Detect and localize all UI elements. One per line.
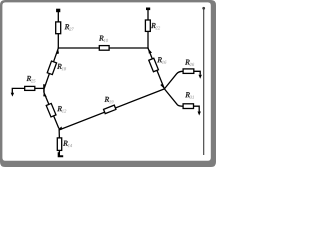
resistor R19 bbox=[104, 105, 116, 113]
label R19 bbox=[105, 97, 109, 102]
wire R14 bottom lead bbox=[58, 150, 60, 152]
wire X to R26 left with curve bbox=[164, 71, 183, 89]
arrowhead at N2 bbox=[43, 92, 47, 96]
resistor R26 bbox=[183, 69, 194, 74]
label R10 bbox=[99, 36, 103, 41]
wire R22 top lead bbox=[147, 9, 149, 21]
node N2 tick bbox=[43, 84, 45, 93]
wire rail right bbox=[203, 8, 205, 155]
label R16 bbox=[157, 57, 161, 62]
label R18 bbox=[57, 64, 61, 69]
resistor R31 bbox=[183, 104, 193, 109]
resistor R22 bbox=[145, 20, 150, 31]
arrowhead at X bbox=[160, 83, 164, 88]
resistor R14 bbox=[57, 138, 61, 151]
wire top horizontal J1 to R10 bbox=[58, 47, 100, 49]
arrowhead right-top bbox=[199, 75, 202, 79]
resistor R10 bbox=[99, 46, 109, 51]
resistor R18 bbox=[47, 61, 56, 74]
terminal top-left bbox=[56, 9, 60, 13]
wire R27 top lead bbox=[57, 11, 59, 22]
label R25 bbox=[27, 76, 31, 81]
wire R10 to J2 bbox=[109, 47, 149, 49]
wire long diagonal N3 to crossing X bbox=[59, 89, 164, 130]
arrowhead at J1 bbox=[56, 49, 59, 54]
terminal bottom bbox=[58, 152, 64, 157]
resistor R16 bbox=[149, 58, 159, 72]
wire diagonal J1 to node N2 bbox=[44, 48, 58, 88]
wire N2 to R25 bbox=[35, 87, 44, 89]
border frame bbox=[0, 0, 216, 167]
wire R26 right lead bbox=[194, 71, 200, 75]
label R12 bbox=[57, 106, 61, 111]
wire R22 bottom lead to node J2 bbox=[147, 31, 149, 49]
arrowhead at J2 bbox=[149, 49, 153, 54]
wire diagonal J2 to crossing X bbox=[148, 48, 164, 89]
arrowhead left terminal bbox=[11, 93, 14, 97]
resistor R12 bbox=[46, 103, 56, 117]
wire R31 right lead bbox=[194, 106, 200, 111]
label R27 bbox=[65, 24, 69, 29]
label R26 bbox=[185, 60, 189, 65]
resistor R25 bbox=[25, 86, 35, 90]
label R22 bbox=[151, 23, 155, 28]
label R14 bbox=[63, 141, 67, 146]
terminal top-right bbox=[146, 8, 150, 11]
wire R27 bottom lead to node J1 bbox=[57, 33, 59, 48]
node rail-top dot bbox=[202, 7, 205, 10]
wire R25 left lead with bend bbox=[12, 88, 24, 93]
wire N3 down to R14 bbox=[58, 128, 60, 138]
label R31 bbox=[185, 92, 189, 97]
wire diagonal N2 to N3 bbox=[44, 93, 59, 129]
wire X to R31 left with curve bbox=[164, 89, 183, 106]
arrowhead right-bottom bbox=[198, 112, 201, 116]
resistor R27 bbox=[56, 22, 61, 34]
arrowhead at N3 bbox=[59, 127, 62, 131]
